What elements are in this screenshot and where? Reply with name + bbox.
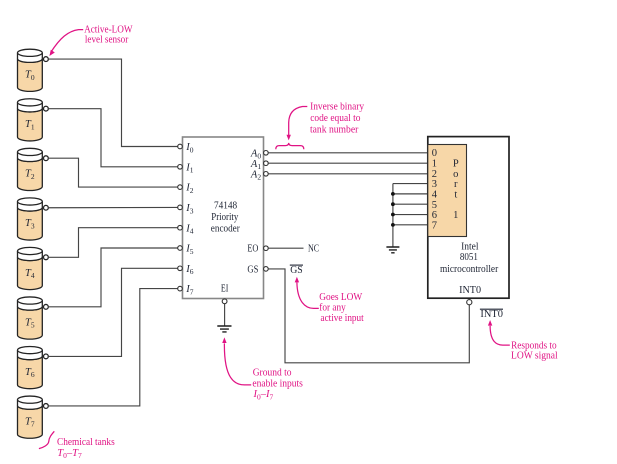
svg-text:GS: GS: [247, 264, 258, 275]
svg-text:for any: for any: [319, 302, 346, 313]
svg-text:T0–T7: T0–T7: [57, 448, 82, 460]
svg-text:Priority: Priority: [211, 212, 239, 223]
svg-text:EO: EO: [247, 243, 258, 254]
svg-text:INT0: INT0: [459, 285, 481, 296]
svg-text:INT0: INT0: [480, 309, 503, 320]
svg-text:code equal to: code equal to: [310, 113, 360, 124]
svg-text:EI: EI: [221, 284, 229, 295]
svg-text:1: 1: [453, 210, 458, 221]
svg-text:Inverse binary: Inverse binary: [310, 101, 365, 112]
svg-text:level sensor: level sensor: [85, 35, 129, 46]
svg-text:8051: 8051: [460, 252, 478, 263]
svg-text:Ground to: Ground to: [253, 368, 292, 379]
svg-text:microcontroller: microcontroller: [440, 264, 499, 275]
svg-text:tank number: tank number: [310, 124, 359, 135]
svg-text:GS: GS: [290, 265, 303, 276]
svg-text:I0–I7: I0–I7: [253, 389, 274, 401]
svg-text:NC: NC: [308, 243, 319, 254]
svg-text:active input: active input: [321, 313, 364, 324]
svg-text:LOW signal: LOW signal: [511, 351, 558, 362]
svg-text:Intel: Intel: [461, 241, 478, 252]
svg-text:Goes LOW: Goes LOW: [319, 292, 362, 303]
svg-text:74148: 74148: [214, 200, 237, 211]
svg-text:Chemical tanks: Chemical tanks: [57, 437, 115, 448]
svg-text:enable inputs: enable inputs: [252, 379, 303, 390]
svg-text:encoder: encoder: [211, 223, 240, 234]
svg-text:t: t: [454, 189, 457, 200]
svg-text:7: 7: [432, 220, 437, 231]
